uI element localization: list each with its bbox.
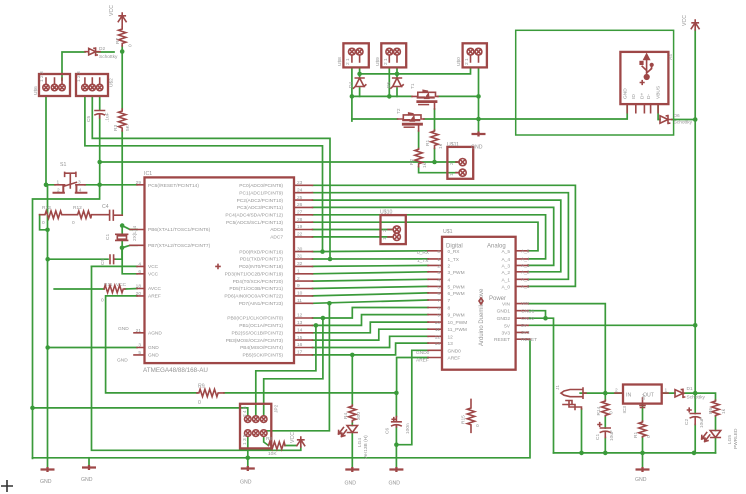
svg-text:ATMEGA48/88/168-AU: ATMEGA48/88/168-AU [143,367,208,374]
svg-text:1: 1 [449,173,455,176]
svg-text:2: 2 [57,187,60,193]
svg-text:U$0: U$0 [456,57,462,66]
svg-text:R1: R1 [425,140,431,146]
svg-text:Ver13B (H): Ver13B (H) [363,435,369,459]
svg-text:A_4: A_4 [501,257,510,263]
svg-text:7: 7 [437,298,440,304]
svg-text:9_PWM: 9_PWM [448,313,465,319]
svg-text:1 2 3: 1 2 3 [39,71,45,82]
svg-text:5: 5 [138,350,141,356]
svg-text:100n: 100n [405,423,411,434]
svg-text:C4: C4 [102,204,109,210]
svg-text:A_4: A_4 [521,257,530,263]
svg-text:5_PWM: 5_PWM [448,284,465,290]
svg-text:1_TX: 1_TX [417,258,429,264]
svg-text:A_1: A_1 [521,277,530,283]
svg-text:R12: R12 [73,205,82,211]
svg-text:32: 32 [297,261,303,267]
svg-text:4: 4 [437,277,440,283]
svg-text:0_RX: 0_RX [417,250,430,256]
svg-text:U$2: U$2 [109,78,115,87]
svg-text:PD2(INT0/PCINT18): PD2(INT0/PCINT18) [239,264,283,270]
svg-text:A_2: A_2 [521,269,530,275]
svg-text:2: 2 [437,263,440,269]
svg-text:RESET: RESET [494,337,510,343]
svg-text:RESET: RESET [521,337,537,343]
svg-text:ADC7: ADC7 [270,235,283,241]
svg-text:23: 23 [297,180,303,186]
svg-text:2 4 6: 2 4 6 [242,406,248,417]
svg-text:U$6: U$6 [33,86,39,95]
svg-text:13: 13 [435,341,441,347]
svg-text:0: 0 [475,424,481,427]
svg-text:VCC: VCC [290,432,296,443]
svg-text:R3: R3 [113,125,119,131]
svg-text:PWRLED: PWRLED [733,428,739,449]
svg-text:GND: GND [118,326,129,332]
svg-text:R7: R7 [115,38,121,44]
svg-text:Schottky: Schottky [674,120,693,126]
svg-text:1_TX: 1_TX [448,257,460,263]
svg-text:D6: D6 [674,113,680,119]
svg-text:2X[L] 4: 2X[L] 4 [132,225,138,241]
svg-text:11_PWM: 11_PWM [448,327,467,333]
svg-text:3: 3 [138,343,141,349]
svg-text:4: 4 [79,187,82,193]
svg-text:R9: R9 [198,384,205,390]
svg-text:21: 21 [136,328,142,334]
svg-text:GND: GND [623,88,629,99]
svg-text:R4: R4 [343,413,349,419]
svg-text:PD5(T1/OC0B/PCINT21): PD5(T1/OC0B/PCINT21) [229,286,283,292]
svg-text:AREF: AREF [148,294,161,300]
svg-text:11: 11 [297,298,302,304]
svg-text:VIN: VIN [521,301,530,307]
svg-text:300: 300 [356,412,362,420]
svg-text:GND: GND [389,481,401,487]
svg-text:9: 9 [297,283,300,289]
svg-text:8: 8 [448,306,451,312]
svg-text:A_2: A_2 [501,270,510,276]
svg-text:10uF: 10uF [609,430,615,441]
svg-text:C2: C2 [684,419,690,425]
svg-text:LG4: LG4 [357,438,363,447]
svg-text:0: 0 [128,44,134,47]
svg-text:1k: 1k [721,408,727,414]
svg-text:12: 12 [297,313,303,319]
svg-text:PB5(SCK/PCINT5): PB5(SCK/PCINT5) [242,353,283,359]
svg-text:GND0: GND0 [416,350,430,356]
svg-text:C5: C5 [100,259,106,265]
svg-text:AVCC: AVCC [148,286,162,292]
svg-text:U$10: U$10 [380,210,393,216]
svg-text:9: 9 [437,313,440,319]
svg-text:5: 5 [437,284,440,290]
svg-text:GND0: GND0 [448,348,462,354]
svg-text:T2: T2 [396,108,402,114]
svg-text:1: 1 [57,180,60,186]
svg-text:C5: C5 [86,116,92,122]
svg-text:10: 10 [297,291,303,297]
svg-text:C1: C1 [105,234,111,240]
svg-text:20: 20 [136,291,142,297]
svg-text:22: 22 [297,232,303,238]
svg-text:5V: 5V [641,393,647,400]
svg-text:U$1: U$1 [443,229,453,235]
svg-text:11: 11 [435,327,440,333]
svg-text:C6: C6 [385,428,391,434]
svg-text:VIN: VIN [502,302,511,308]
svg-text:ADC6: ADC6 [270,227,283,233]
svg-text:0: 0 [42,220,45,226]
svg-text:Arduino Duemilanove: Arduino Duemilanove [479,288,485,346]
svg-text:15: 15 [297,335,303,341]
svg-text:0: 0 [609,411,615,414]
svg-text:D+: D+ [640,93,646,99]
svg-text:2 1: 2 1 [345,58,351,65]
svg-text:17: 17 [297,350,303,356]
svg-text:A_0: A_0 [521,284,530,290]
svg-text:R13: R13 [42,205,51,211]
svg-text:2: 2 [448,263,451,269]
svg-text:GND: GND [635,477,647,483]
svg-text:R1: R1 [633,432,639,438]
svg-text:R8: R8 [266,436,272,442]
svg-text:IN: IN [626,393,631,399]
svg-text:PB4(MISO/PCINT4): PB4(MISO/PCINT4) [240,345,283,351]
svg-text:A_3: A_3 [521,263,530,269]
svg-text:VCC: VCC [682,15,688,26]
svg-text:5V: 5V [504,323,511,329]
svg-text:PC0(ADC0/PCINT8): PC0(ADC0/PCINT8) [239,183,283,189]
svg-text:26: 26 [297,202,303,208]
svg-text:8: 8 [437,306,440,312]
svg-text:J1: J1 [555,385,561,390]
svg-text:4: 4 [138,261,141,267]
svg-text:Digital: Digital [446,244,463,250]
svg-text:AREF: AREF [448,356,461,362]
svg-text:GND: GND [240,480,252,486]
svg-text:0: 0 [198,400,201,406]
svg-text:ID: ID [631,94,637,99]
svg-text:PC5(ADC5/SCL/PCINT13): PC5(ADC5/SCL/PCINT13) [226,220,283,226]
svg-text:12: 12 [448,334,454,340]
svg-text:GND1: GND1 [521,308,535,314]
svg-text:2: 2 [382,229,388,232]
svg-text:U$9: U$9 [375,57,381,66]
svg-text:31: 31 [297,254,303,260]
svg-text:D5: D5 [386,82,392,88]
svg-text:T1: T1 [410,83,416,89]
svg-text:10uF: 10uF [699,417,705,428]
svg-text:S1: S1 [60,162,66,168]
svg-text:C1: C1 [595,434,601,440]
svg-text:PC1(ADC1/PCINT9): PC1(ADC1/PCINT9) [239,190,283,196]
svg-text:R6: R6 [708,408,714,414]
svg-text:1: 1 [665,388,668,394]
svg-text:0: 0 [101,298,104,304]
svg-text:R15: R15 [461,415,467,424]
svg-text:5K: 5K [125,124,131,131]
svg-text:D2: D2 [99,46,105,52]
svg-text:A_5: A_5 [521,248,530,254]
svg-text:PB2(SS/OC1B/PCINT2): PB2(SS/OC1B/PCINT2) [232,331,284,337]
svg-text:PC6(/RESET/PCINT14): PC6(/RESET/PCINT14) [148,183,199,189]
svg-text:AGND: AGND [148,331,162,337]
svg-text:PD1(TXD/PCINT17): PD1(TXD/PCINT17) [240,257,284,263]
svg-text:PC2(ADC2/PCINT10): PC2(ADC2/PCINT10) [237,198,284,204]
svg-text:Analog: Analog [487,244,506,250]
svg-text:1 3 5: 1 3 5 [242,434,248,445]
svg-text:25: 25 [297,195,303,201]
svg-text:30: 30 [297,246,303,252]
svg-text:19: 19 [297,224,303,230]
svg-text:27: 27 [297,210,303,216]
svg-text:Schottky: Schottky [687,395,706,401]
svg-text:JP2: JP2 [274,404,280,413]
svg-text:A_5: A_5 [501,249,510,255]
svg-text:A_3: A_3 [501,263,510,269]
svg-text:13: 13 [297,320,303,326]
svg-text:R2: R2 [409,159,415,165]
svg-text:GND: GND [148,345,159,351]
svg-text:R14: R14 [596,406,602,415]
svg-text:3: 3 [437,270,440,276]
svg-text:PC4(ADC4/SDA/PCINT12): PC4(ADC4/SDA/PCINT12) [225,213,283,219]
svg-text:4: 4 [448,277,451,283]
svg-text:2 1: 2 1 [383,58,389,65]
svg-text:GND1: GND1 [497,309,511,315]
svg-text:1 2 3: 1 2 3 [76,71,82,82]
svg-text:GND2: GND2 [521,316,535,322]
svg-text:PD4(T0/XCK/PCINT20): PD4(T0/XCK/PCINT20) [233,279,284,285]
svg-text:3: 3 [78,180,81,186]
svg-text:2: 2 [449,162,455,165]
svg-text:2 1: 2 1 [464,58,470,65]
svg-text:D-: D- [646,94,652,99]
svg-text:18: 18 [136,284,142,290]
svg-text:PD7(AIN1/PCINT23): PD7(AIN1/PCINT23) [239,301,284,307]
svg-text:PD6(AIN0/OC0A/PCINT22): PD6(AIN0/OC0A/PCINT22) [224,294,283,300]
svg-text:12: 12 [435,334,441,340]
svg-text:U$8: U$8 [337,57,343,66]
svg-text:GND: GND [471,145,483,151]
svg-text:GND: GND [81,477,93,483]
svg-text:29: 29 [136,180,142,186]
svg-text:28: 28 [297,217,303,223]
svg-text:D1: D1 [687,386,693,392]
svg-text:2: 2 [615,388,618,394]
svg-text:GND: GND [148,353,159,359]
svg-text:1k: 1k [422,162,428,168]
svg-text:VCC: VCC [148,264,159,270]
svg-text:13: 13 [448,341,454,347]
svg-text:GND: GND [40,479,52,485]
svg-text:VBUS: VBUS [656,86,662,99]
svg-text:VCC: VCC [148,272,159,278]
svg-text:24: 24 [297,187,303,193]
svg-text:PD3(INT1/OC2B/PCINT19): PD3(INT1/OC2B/PCINT19) [225,272,284,278]
svg-text:GND: GND [117,358,128,364]
svg-text:PB7(XTAL2/TOSC2/PCINT7): PB7(XTAL2/TOSC2/PCINT7) [148,243,211,249]
svg-text:A_0: A_0 [501,284,510,290]
svg-text:6_PWM: 6_PWM [448,291,465,297]
svg-text:10K: 10K [268,451,277,457]
svg-text:5V: 5V [521,323,528,329]
svg-text:0: 0 [437,249,440,255]
svg-text:AREF: AREF [416,357,429,363]
svg-text:IC1: IC1 [144,171,152,177]
svg-text:GND2: GND2 [497,316,511,322]
svg-text:1k: 1k [438,143,444,149]
svg-text:PB6(XTAL1/TOSC1/PCINT6): PB6(XTAL1/TOSC1/PCINT6) [148,227,211,233]
svg-text:6: 6 [437,291,440,297]
svg-text:PD0(RXD/PCINT16): PD0(RXD/PCINT16) [239,249,283,255]
svg-text:0: 0 [646,435,652,438]
svg-text:.1uF: .1uF [105,112,111,122]
svg-text:IC3: IC3 [622,406,628,414]
svg-text:1: 1 [437,257,440,263]
svg-text:2: 2 [297,276,300,282]
svg-text:LG5: LG5 [727,435,733,444]
svg-text:1: 1 [297,269,300,275]
svg-text:1: 1 [382,237,388,240]
svg-text:PB0(ICP1/CLKO/PCINT0): PB0(ICP1/CLKO/PCINT0) [227,316,283,322]
svg-text:10_PWM: 10_PWM [448,320,468,326]
svg-text:3_PWM: 3_PWM [448,270,465,276]
svg-text:A4: A4 [668,54,674,60]
svg-text:Schottky: Schottky [99,54,118,60]
svg-text:PB3(MOSI/OC2A/PCINT3): PB3(MOSI/OC2A/PCINT3) [226,338,284,344]
svg-text:GND: GND [345,481,357,487]
svg-text:0_RX: 0_RX [448,249,461,255]
svg-text:A_1: A_1 [501,277,510,283]
svg-text:14: 14 [297,328,303,334]
svg-text:D4: D4 [348,82,354,88]
svg-text:U$11: U$11 [447,142,459,148]
svg-text:Power: Power [489,296,506,302]
svg-text:10: 10 [435,320,441,326]
svg-text:PC3(ADC3/PCINT11): PC3(ADC3/PCINT11) [237,205,283,211]
svg-text:0: 0 [72,220,75,226]
svg-text:7: 7 [448,298,451,304]
svg-text:PB1(OC1A/PCINT1): PB1(OC1A/PCINT1) [239,323,283,329]
svg-text:3V3: 3V3 [501,330,510,336]
svg-text:16: 16 [297,342,303,348]
svg-text:VCC: VCC [109,5,115,16]
svg-text:VCC: VCC [116,282,127,288]
svg-text:6: 6 [138,269,141,275]
svg-text:3V3: 3V3 [521,330,530,336]
